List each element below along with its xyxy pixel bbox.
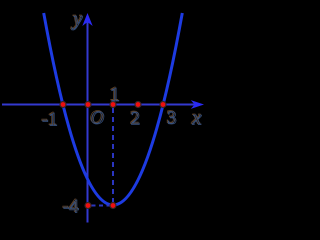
label y	[70, 6, 83, 31]
label O	[90, 107, 105, 129]
dashed vertical line x=1 from (1,0) to vertex (1,-4)	[112, 108, 114, 203]
point O (0,0)	[85, 102, 91, 108]
x-axis arrowhead	[191, 100, 204, 109]
label -1	[41, 109, 58, 131]
svg-text:-1: -1	[42, 110, 58, 131]
svg-text:2: 2	[131, 109, 141, 130]
point (2,0)	[135, 102, 141, 108]
point (-1,0)	[60, 102, 66, 108]
dashed horizontal line y=-4 from (0,-4) to (1,-4)	[92, 205, 111, 207]
parabola curve y = x^2-2x-3	[44, 13, 183, 205]
vertex point (1,-4)	[110, 203, 116, 209]
svg-text:x: x	[191, 106, 202, 130]
label 3	[166, 107, 177, 129]
svg-text:-4: -4	[63, 197, 79, 218]
svg-text:3: 3	[167, 108, 177, 129]
svg-text:O: O	[91, 108, 105, 129]
label 1	[109, 83, 120, 106]
label x	[190, 105, 202, 130]
point (0,-4)	[85, 203, 91, 209]
svg-text:y: y	[71, 7, 83, 31]
point (3,0)	[160, 102, 166, 108]
y-axis arrowhead	[82, 13, 92, 26]
y-axis	[87, 20, 89, 223]
label -4	[62, 196, 79, 218]
label 2	[130, 108, 141, 130]
x-axis	[2, 104, 197, 106]
point (1,0)	[110, 102, 116, 108]
svg-text:1: 1	[110, 84, 120, 106]
